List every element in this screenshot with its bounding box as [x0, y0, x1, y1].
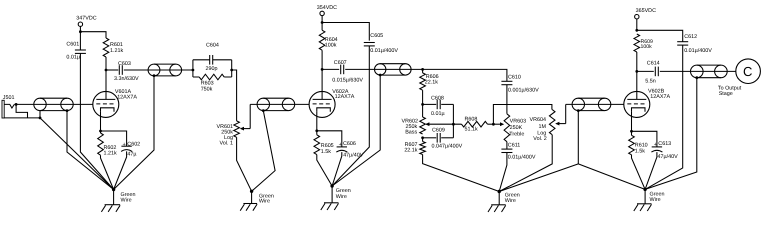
wire coupling box left side — [192, 60, 194, 77]
wire C608 branch left — [423, 103, 437, 105]
resistor R604 — [321, 23, 323, 31]
node plate V602B — [635, 70, 638, 73]
wire C611 to ground star 3 — [499, 153, 507, 192]
svg-text:C612: C612 — [684, 34, 697, 40]
svg-text:51.1k: 51.1k — [465, 127, 478, 133]
svg-text:0.01µ: 0.01µ — [66, 55, 80, 61]
svg-text:0.01µ/400V: 0.01µ/400V — [508, 155, 536, 161]
wire R610 to ground star 4 — [632, 155, 646, 190]
wire V602A plate lead — [321, 69, 323, 99]
wire B+ rail to R601 — [80, 32, 106, 38]
node cathode V601A — [99, 130, 102, 133]
svg-text:47µ/40V: 47µ/40V — [658, 154, 679, 160]
wire tone stack top rail to C610 — [423, 69, 507, 81]
svg-text:C606: C606 — [343, 141, 356, 147]
shielded cable W4 — [380, 63, 405, 65]
wire B+ stem output stage — [636, 19, 638, 30]
node ground star mid — [250, 190, 253, 193]
svg-text:1M: 1M — [539, 124, 547, 130]
shielded cable W1 — [40, 97, 67, 99]
potentiometer VR603 treble — [504, 114, 510, 142]
svg-text:Vol. 1: Vol. 1 — [220, 141, 234, 147]
wire shield W1 left to sleeve — [39, 111, 41, 118]
wire C610 to VR603 — [506, 85, 508, 114]
svg-text:1.5k: 1.5k — [321, 149, 331, 155]
wire 347VDC to C601 — [79, 32, 81, 50]
wire shield W1 to ground star 1 — [67, 111, 114, 190]
wire J501 tip to V601A grid — [14, 103, 93, 105]
node shield W3 — [262, 109, 265, 112]
wire J501 shorting switch — [16, 104, 27, 118]
chassis ground star 3 — [498, 192, 500, 205]
wire C607 to tone stack input — [345, 68, 422, 70]
wire V602A cathode lead — [316, 111, 318, 130]
shielded cable W2 — [154, 63, 176, 65]
triode V602A — [309, 91, 335, 117]
wire shield W6 to ground star 4 — [645, 78, 697, 190]
wire J501 sleeve — [4, 117, 40, 119]
node ground star 3 — [498, 190, 501, 193]
svg-text:R608: R608 — [465, 117, 478, 123]
node shield W1 right — [66, 109, 69, 112]
wire VR601 to V602A grid — [250, 103, 309, 105]
svg-text:0.001µ/630V: 0.001µ/630V — [508, 88, 539, 94]
node tone stack input — [421, 68, 424, 71]
wire plate node to C603 — [106, 69, 118, 71]
node plate V601A — [105, 69, 108, 72]
potentiometer VR601 volume 1 — [234, 121, 240, 137]
svg-text:3.3n/630V: 3.3n/630V — [114, 76, 139, 82]
wire B+ stem stage 2 — [321, 16, 323, 23]
svg-text:C610: C610 — [508, 75, 521, 81]
svg-text:0.015µ/630V: 0.015µ/630V — [332, 77, 363, 83]
wire C601 to ground star 1 — [80, 53, 113, 189]
node caps rail — [452, 123, 455, 126]
svg-text:47µ: 47µ — [127, 152, 136, 158]
node shield W4 — [379, 74, 382, 77]
svg-text:750k: 750k — [201, 86, 213, 92]
node shield W6 — [695, 76, 698, 79]
wire R608 to VR603 wiper — [488, 123, 501, 125]
node J501 sleeve junction — [39, 117, 42, 120]
wire caps rail vertical — [452, 104, 454, 137]
wire C603 to shielded cable 2 and coupling network — [124, 69, 193, 71]
chassis ground star 4 — [644, 189, 646, 203]
node treble wiper tap — [492, 123, 495, 126]
node B+ rail stage 2 — [321, 21, 324, 24]
wire B+ stem stage 1 — [79, 26, 81, 31]
resistor R605 — [316, 131, 318, 135]
wire C602 to ground star 1 — [114, 151, 127, 189]
svg-text:C609: C609 — [432, 127, 445, 133]
svg-text:12AX7A: 12AX7A — [335, 94, 355, 100]
svg-text:Stage: Stage — [719, 91, 733, 97]
svg-text:0.01µ: 0.01µ — [431, 111, 445, 117]
wire R604 to plate node — [321, 50, 323, 69]
node ground star 2 — [330, 184, 333, 187]
wire V602B plate lead — [636, 71, 638, 99]
potentiometer VR604 volume 2 — [549, 110, 555, 135]
node box input — [192, 69, 195, 72]
wire R602 to ground star 1 — [101, 155, 114, 189]
wire cathode node to C602 — [101, 131, 127, 146]
resistor R602 — [100, 131, 102, 133]
node ground star 4 — [643, 188, 646, 191]
wire C605 to ground star 2 — [332, 46, 369, 186]
svg-text:100k: 100k — [641, 44, 653, 50]
wire C614 to connector — [660, 70, 736, 72]
wire C609 branch right — [441, 137, 453, 139]
svg-text:347VDC: 347VDC — [76, 16, 96, 22]
svg-text:100k: 100k — [325, 43, 337, 49]
chassis ground star mid — [251, 191, 253, 203]
wire R607 to ground star 3 — [423, 155, 500, 192]
triode V602B — [624, 91, 650, 117]
wire VR603 to C611 — [506, 142, 508, 150]
svg-text:C605: C605 — [370, 33, 383, 39]
svg-text:C611: C611 — [508, 142, 521, 148]
wire V601A cathode lead — [100, 111, 102, 131]
resistor R607 — [422, 138, 424, 142]
wire shield W3 to ground star mid — [252, 111, 276, 192]
svg-text:Bass: Bass — [405, 129, 417, 135]
wire shield W4 to ground star 2 — [332, 75, 380, 186]
wire VR604 wiper — [556, 123, 565, 125]
svg-text:0.047µ/400V: 0.047µ/400V — [432, 143, 463, 149]
node shield W2 — [153, 74, 156, 77]
svg-text:C: C — [743, 64, 752, 79]
node B+ rail output stage — [635, 29, 638, 32]
svg-text:Vol. 2: Vol. 2 — [533, 136, 547, 142]
resistor R603 — [199, 74, 224, 80]
svg-text:Wire: Wire — [505, 198, 516, 204]
shielded cable W3 — [263, 97, 288, 99]
resistor R601 — [103, 38, 109, 57]
wire VR604 wiper to V602B grid — [566, 103, 624, 105]
wire J501 tip contact with notch — [4, 104, 14, 108]
wire shield W5 to ground star 3 — [499, 111, 578, 192]
svg-text:250K: 250K — [510, 125, 523, 131]
node plate V602A — [321, 68, 324, 71]
wire plate node to C607 — [322, 68, 339, 70]
wire wiper node riser to VR604 — [493, 105, 552, 125]
node cathode V602A — [315, 129, 318, 132]
svg-text:Wire: Wire — [336, 194, 347, 200]
svg-text:+: + — [123, 142, 126, 148]
chassis ground star 1 — [113, 190, 115, 205]
resistor R608 — [462, 121, 488, 127]
svg-text:Treble: Treble — [509, 131, 524, 137]
chassis ground star 2 — [331, 186, 333, 203]
svg-text:C601: C601 — [66, 42, 79, 48]
node J501 switch tap — [15, 103, 18, 106]
wire B+ rail stage 2 to C605 — [322, 23, 369, 41]
node bass rail upper — [421, 103, 424, 106]
wire R609 to plate node — [636, 52, 638, 71]
svg-text:1.21k: 1.21k — [110, 48, 123, 54]
wire C612 to ground star 4 — [645, 45, 683, 189]
wire shield W2 to ground star 1 — [114, 76, 154, 190]
wire V601A plate lead — [105, 70, 107, 99]
wire C608 branch right — [441, 103, 453, 105]
wire cathode node to C606 — [317, 131, 342, 147]
wire C606 to ground star 2 — [332, 152, 342, 186]
wire plate node to C614 — [637, 70, 654, 72]
wire box top branch — [193, 59, 232, 61]
svg-text:12AX7A: 12AX7A — [117, 94, 137, 100]
node cathode V602B — [630, 130, 633, 133]
node bass rail lower — [421, 136, 424, 139]
node shield W5 — [577, 109, 580, 112]
svg-text:1.5k: 1.5k — [635, 148, 645, 154]
svg-text:C614: C614 — [647, 60, 660, 66]
wire ground bus to output star — [578, 164, 645, 190]
wire VR604 wiper riser to cable 5 — [565, 104, 567, 123]
svg-text:Wire: Wire — [121, 198, 132, 204]
svg-text:Wire: Wire — [650, 197, 661, 203]
wire sleeve to ground star 1 — [40, 118, 114, 190]
wire V602B cathode lead — [631, 111, 633, 131]
shielded cable W5 — [578, 97, 604, 99]
node B+ rail stage 1 — [79, 30, 82, 33]
svg-text:0.01µ/400V: 0.01µ/400V — [684, 48, 712, 54]
resistor R606 — [422, 69, 424, 73]
wire VR602 wiper to R608 — [426, 123, 461, 125]
svg-text:5.5n: 5.5n — [645, 79, 656, 85]
svg-text:VR603: VR603 — [510, 119, 526, 125]
svg-text:Wire: Wire — [259, 199, 270, 205]
svg-text:47µ/40V: 47µ/40V — [343, 153, 364, 159]
shielded cable W6 — [697, 64, 721, 66]
svg-text:12AX7A: 12AX7A — [650, 94, 670, 100]
svg-text:VR604: VR604 — [530, 117, 546, 123]
wire VR601 wiper riser to cable 3 — [249, 104, 251, 128]
potentiometer VR602 bass — [420, 117, 426, 134]
wire cathode node to C613 — [632, 131, 657, 147]
svg-text:C604: C604 — [206, 42, 219, 48]
connector C to output stage — [736, 59, 761, 84]
svg-text:22.1k: 22.1k — [425, 79, 438, 85]
wire C613 to ground star 4 — [645, 152, 657, 189]
wire box output to VR601 — [232, 70, 237, 121]
resistor R610 — [631, 131, 633, 135]
wire B+ rail to C612 — [637, 30, 683, 42]
wire VR601 wiper — [241, 128, 250, 130]
wire R605 to ground star 2 — [317, 155, 332, 186]
resistor R609 — [634, 34, 640, 52]
wire R601 to plate node — [105, 57, 107, 70]
svg-text:1.21k: 1.21k — [104, 150, 117, 156]
triode V601A — [93, 91, 119, 117]
wire R606 to C608 node — [422, 90, 424, 117]
svg-text:354VDC: 354VDC — [317, 5, 337, 11]
wire box bottom branch — [193, 76, 232, 78]
svg-text:C603: C603 — [118, 61, 131, 67]
wire VR604 bottom to ground star 3 — [499, 135, 552, 192]
node box output — [230, 69, 233, 72]
wire C609 branch left — [423, 137, 437, 139]
node ground star 1 — [112, 188, 115, 191]
svg-text:C613: C613 — [658, 141, 671, 147]
svg-text:0.01µ/400V: 0.01µ/400V — [370, 48, 398, 54]
svg-text:290p: 290p — [206, 66, 218, 72]
svg-text:22.1k: 22.1k — [404, 147, 417, 153]
svg-text:365VDC: 365VDC — [636, 8, 656, 14]
wire coupling box right side — [231, 60, 233, 77]
wire VR601 bottom to ground star mid — [237, 137, 252, 191]
